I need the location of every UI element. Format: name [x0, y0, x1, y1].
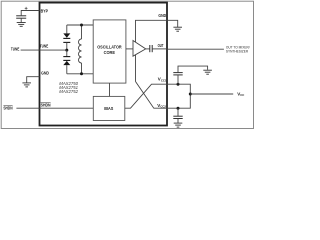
- svg-text:VCC1: VCC1: [158, 77, 167, 83]
- bias block: [93, 96, 125, 120]
- svg-text:VCC: VCC: [237, 91, 244, 97]
- oscillator core block: [93, 20, 126, 83]
- svg-text:BIAS: BIAS: [104, 106, 113, 111]
- op-amp buffer: [133, 41, 146, 57]
- varactor D2 (bottom): [63, 50, 70, 74]
- svg-text:SYNTHESIZER: SYNTHESIZER: [226, 50, 249, 54]
- svg-text:GND: GND: [41, 70, 49, 75]
- capacitor C3 (VCC2 bypass): [173, 108, 182, 123]
- svg-text:VCC2: VCC2: [157, 103, 166, 109]
- wire VCC2 external: [167, 94, 190, 108]
- capacitor C-out (internal dc block): [146, 45, 167, 52]
- svg-text:CORE: CORE: [104, 50, 115, 55]
- svg-text:BYP: BYP: [41, 9, 48, 14]
- svg-text:OUT TO MIXER/: OUT TO MIXER/: [226, 45, 250, 49]
- node TUNE junction: [65, 49, 68, 52]
- svg-text:MAX2752: MAX2752: [59, 89, 78, 94]
- node VCC junction: [189, 93, 192, 96]
- node bottom rail junction: [80, 72, 83, 75]
- capacitor C2 (VCC1 bypass): [173, 66, 207, 84]
- inductor L1: [79, 25, 82, 74]
- wire osc to buffer: [126, 48, 133, 50]
- node top rail junction: [80, 24, 83, 27]
- wire GND rail through buffer: [136, 20, 178, 81]
- ground (C3): [174, 123, 183, 127]
- wire osc-bias connector: [109, 83, 111, 96]
- wire SHDN: [16, 107, 93, 109]
- capacitor C1 (BYP bypass, polarized): [16, 11, 39, 23]
- svg-text:OSCILLATOR: OSCILLATOR: [97, 45, 122, 50]
- wire bias to VCC1 (crossing diagonal): [125, 84, 167, 108]
- ground (right GND pin): [173, 27, 182, 31]
- svg-text:OUT: OUT: [158, 43, 164, 48]
- wire buffer to VCC2 (crossing diagonal): [136, 82, 168, 109]
- node VCC1 bypass junction: [177, 83, 180, 86]
- wire VCC1 external: [167, 84, 190, 94]
- outer frame: [1, 1, 253, 128]
- wire OUT external: [167, 48, 224, 50]
- svg-text:SHDN: SHDN: [41, 102, 51, 107]
- plus sign of C1: [25, 7, 28, 10]
- ground (C2): [203, 70, 212, 74]
- wire tank bottom rail: [67, 73, 93, 75]
- svg-text:TUNE: TUNE: [11, 46, 20, 51]
- node VCC2 bypass junction: [177, 107, 180, 110]
- ground (left GND pin): [22, 83, 31, 87]
- wire tank top rail: [67, 24, 93, 26]
- varactor D1 (top): [63, 25, 70, 50]
- svg-text:SHDN: SHDN: [3, 105, 12, 110]
- wire VCC: [190, 93, 233, 95]
- wire GND left: [27, 77, 40, 83]
- wire TUNE: [21, 49, 67, 51]
- svg-text:TUNE: TUNE: [40, 44, 49, 49]
- svg-text:GND: GND: [158, 13, 166, 18]
- IC box MAX2750: [40, 3, 168, 126]
- ground (C1): [17, 23, 26, 27]
